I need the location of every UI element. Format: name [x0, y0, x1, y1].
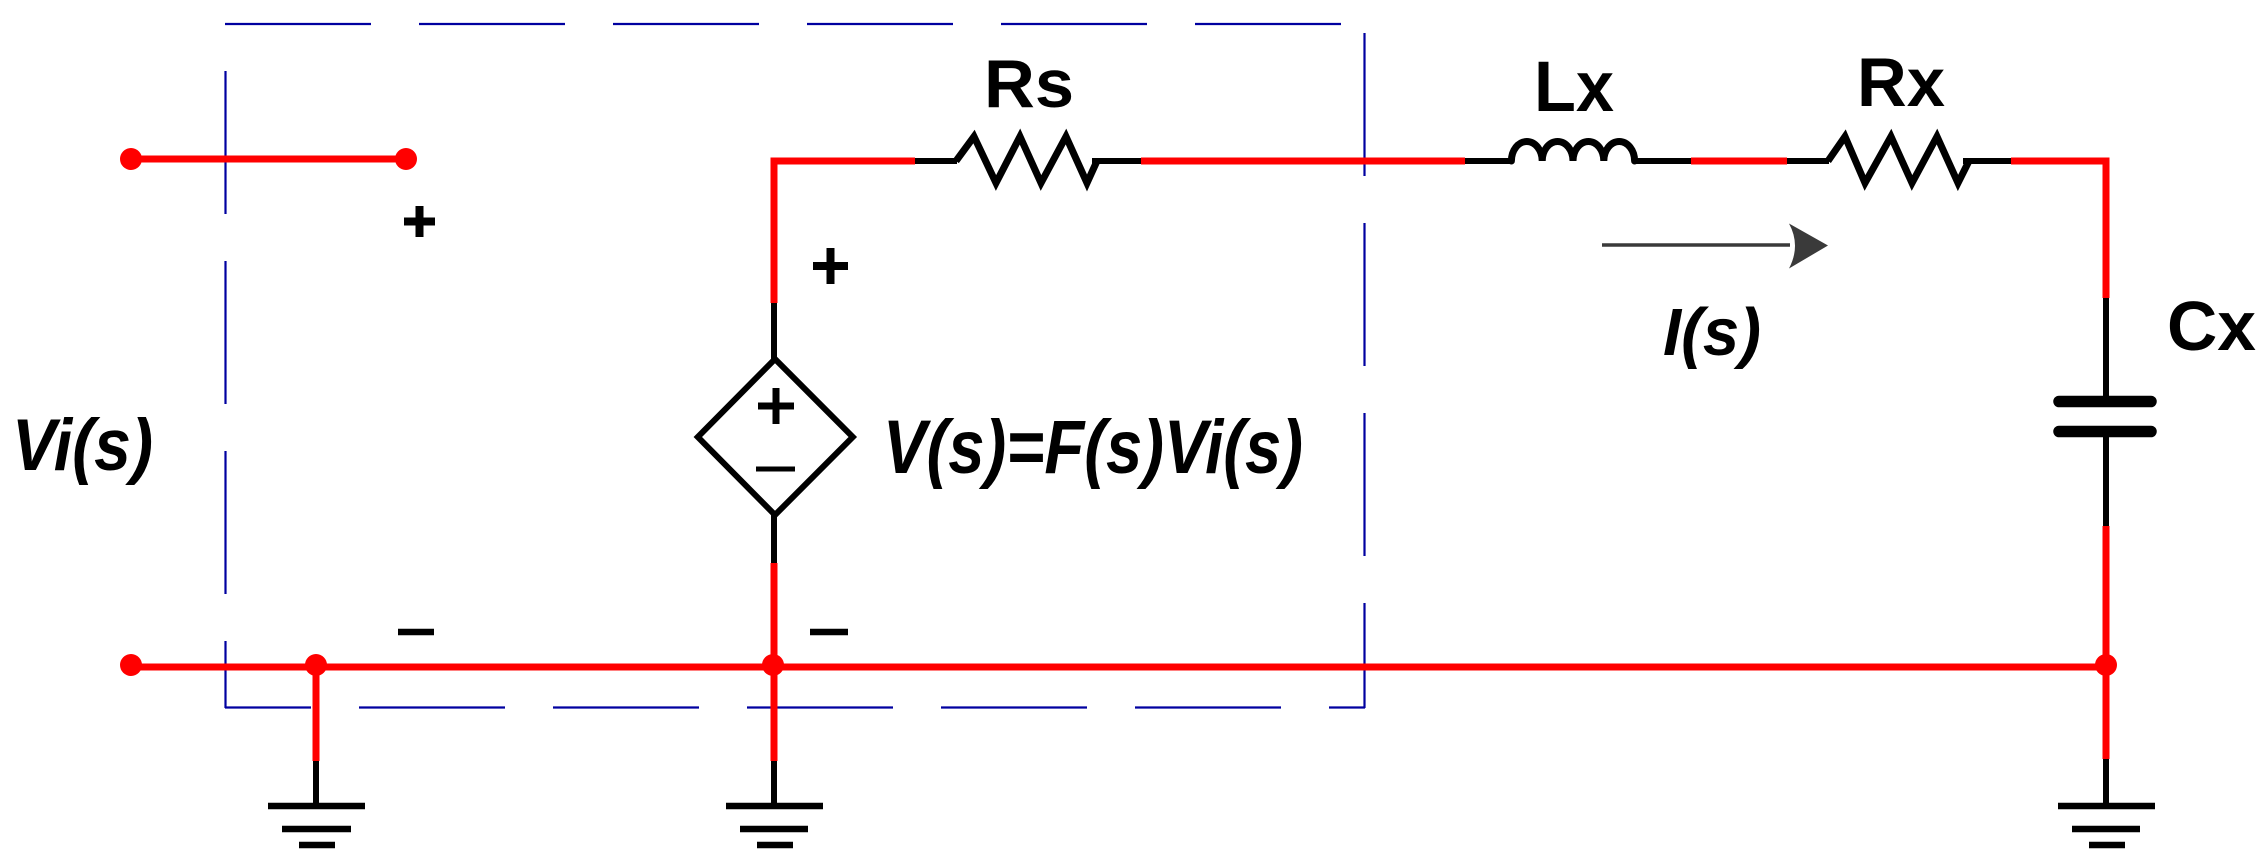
- wire: source ground stub black: [771, 761, 777, 806]
- − inside source: [756, 467, 795, 472]
- ground (right): [2058, 806, 2155, 845]
- node: junction dot left ground: [305, 654, 327, 676]
- wire: black lead left of Rx: [1787, 158, 1829, 164]
- dashed boundary box: right edge: [1363, 24, 1365, 708]
- ground (left): [268, 806, 365, 845]
- current arrow I(s): [1602, 224, 1828, 269]
- wire: left ground stub red: [313, 667, 320, 761]
- capacitor Cx plates: [2059, 402, 2151, 432]
- node: junction dot right ground: [2095, 654, 2117, 676]
- wire: right ground stub red: [2103, 667, 2110, 759]
- node: input terminal dot left: [120, 148, 142, 170]
- − polarity (source bottom): [810, 629, 848, 636]
- ground (source): [726, 806, 823, 845]
- svg-text:Rs: Rs: [984, 46, 1074, 122]
- dependent source U1 diamond: [698, 359, 853, 515]
- svg-text:V(s)=F(s)Vi(s): V(s)=F(s)Vi(s): [883, 405, 1303, 490]
- + inside source: [758, 388, 794, 424]
- svg-text:I(s): I(s): [1663, 295, 1761, 370]
- wire: black lead left of Rs: [915, 158, 957, 164]
- dashed boundary box: bottom edge: [225, 706, 1365, 708]
- svg-text:Lx: Lx: [1534, 48, 1614, 127]
- node: rail end dot: [120, 654, 142, 676]
- − polarity (input): [398, 629, 434, 636]
- wire: dependent source top red (vertical+horizontal to Rs): [774, 161, 915, 303]
- wire: source bottom black lead: [771, 515, 777, 563]
- wire: red Cx to rail: [2103, 526, 2110, 667]
- svg-text:Rx: Rx: [1857, 44, 1945, 121]
- dashed boundary box: left edge: [224, 24, 226, 708]
- wire: input terminal (top-left, red): [131, 156, 406, 163]
- wire: red Rx to Cx corner: [2011, 161, 2106, 298]
- wire: red Rs to Lx: [1141, 158, 1465, 165]
- wire: black lead left of Lx: [1465, 158, 1513, 164]
- resistor Rx: [1828, 137, 1969, 184]
- dashed boundary box: top edge: [225, 23, 1365, 25]
- svg-text:Cx: Cx: [2167, 287, 2256, 365]
- svg-text:Vi(s): Vi(s): [12, 405, 153, 486]
- + polarity (source top): [813, 248, 848, 284]
- wire: source bottom red: [771, 563, 778, 667]
- wire: bottom ground rail (red): [131, 664, 2106, 671]
- wire: left ground stub black: [313, 761, 319, 806]
- node: junction dot source ground: [762, 654, 784, 676]
- wire: black lead right of Rs: [1092, 158, 1141, 164]
- wire: black lead right of Rx: [1963, 158, 2011, 164]
- wire: black lead below Cx: [2103, 437, 2109, 526]
- wire: source ground stub red: [771, 667, 778, 761]
- + polarity (input): [404, 206, 435, 237]
- wire: source top black lead: [771, 303, 777, 360]
- wire: black lead right of Lx: [1634, 158, 1691, 164]
- resistor Rs: [956, 137, 1097, 184]
- inductor Lx: [1511, 141, 1634, 161]
- wire: black lead above Cx: [2103, 298, 2109, 397]
- node: input terminal dot right: [395, 148, 417, 170]
- wire: right ground stub black: [2103, 759, 2109, 806]
- wire: red Lx to Rx: [1691, 158, 1787, 165]
